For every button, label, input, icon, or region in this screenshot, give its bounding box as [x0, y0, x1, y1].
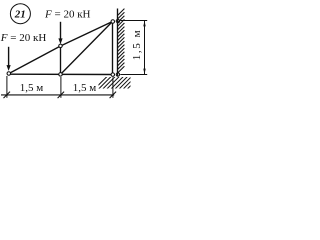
right dimension extension line bottom	[120, 74, 147, 76]
node B	[59, 73, 63, 77]
dimension tick at B	[58, 92, 65, 99]
wire: bottom chord A-B-E	[9, 73, 113, 75]
svg-text:21: 21	[14, 9, 26, 21]
bottom dimension witness line at A	[6, 76, 8, 98]
force arrow at node D	[58, 22, 62, 44]
svg-text:F = 20 кН: F = 20 кН	[0, 32, 46, 44]
node E	[111, 73, 115, 77]
right dimension extension line top	[120, 20, 147, 22]
right dimension arrow up	[143, 21, 145, 27]
svg-text:1,5 м: 1,5 м	[20, 82, 44, 94]
svg-text:F = 20 кН: F = 20 кН	[44, 9, 91, 21]
node C	[111, 20, 115, 24]
problem number badge 21	[10, 4, 30, 24]
svg-text:1,5 м: 1,5 м	[73, 82, 97, 94]
svg-text:1,5 м: 1,5 м	[131, 29, 143, 60]
support hatching below pin E	[93, 76, 144, 91]
bottom dimension line	[1, 94, 114, 96]
wall hatching	[118, 9, 125, 73]
wall pin top	[116, 19, 119, 22]
dimension tick at A	[4, 92, 11, 99]
right dimension arrow down	[143, 69, 145, 75]
wall pin bottom	[116, 73, 119, 76]
force arrow at node A	[7, 47, 11, 71]
right dimension line	[144, 21, 146, 75]
node A	[7, 72, 11, 76]
node D	[59, 44, 63, 48]
wire: vertical C-E	[112, 22, 114, 75]
wire: diagonal B-C	[61, 22, 113, 75]
wire: diagonal A-D	[9, 46, 61, 74]
bottom dimension witness line at E	[112, 77, 114, 97]
wire: diagonal D-C	[61, 22, 113, 47]
bottom dimension witness line at B	[60, 77, 62, 98]
wire: vertical B-D	[60, 46, 62, 74]
wall edge line	[117, 9, 119, 76]
dimension tick at E	[110, 92, 117, 99]
